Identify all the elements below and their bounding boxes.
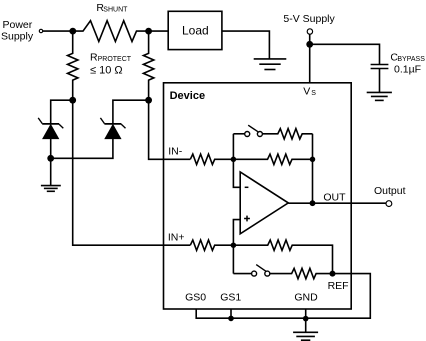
wire GND junction to ground [305, 318, 307, 332]
wire node C to zener D1 [51, 100, 73, 124]
node D right protect zener junction [145, 97, 152, 104]
svg-text:Device: Device [170, 90, 205, 102]
zener diode D1 [38, 118, 63, 139]
resistor RSHUNT [73, 21, 149, 42]
svg-text:BYPASS: BYPASS [397, 56, 425, 63]
svg-text:V: V [303, 85, 310, 97]
svg-text:Supply: Supply [1, 31, 34, 43]
node I non-inverting node [231, 242, 237, 248]
svg-text:5-V Supply: 5-V Supply [283, 13, 335, 25]
label RPROTECT [90, 51, 132, 63]
node F inverting node [231, 157, 237, 163]
terminal Power Supply [39, 29, 42, 32]
wire node B to load [149, 30, 169, 32]
load block [168, 11, 222, 49]
wire node F up to switch S1 [232, 134, 234, 160]
svg-text:GS0: GS0 [185, 291, 206, 303]
ground GND pin [293, 332, 318, 340]
node A shunt left junction [69, 28, 76, 35]
wire power supply terminal to node A [43, 30, 73, 32]
resistor R3 feedback [233, 154, 312, 164]
svg-text:IN+: IN+ [168, 232, 185, 244]
wire VS pin stub [309, 44, 311, 83]
wire node F to op-amp inverting input [233, 159, 240, 187]
wire node C to IN+ pin [73, 100, 191, 245]
wire zener D2 anode to node E [51, 139, 113, 159]
node H output node [310, 200, 316, 206]
wire node VS to capacitor CBYPASS [310, 44, 380, 64]
wire node D to zener D2 [113, 100, 149, 124]
node J REF node [330, 271, 336, 277]
node E zener anodes junction [47, 155, 54, 162]
resistor R2 gain set [262, 129, 312, 139]
switch S1 [233, 125, 262, 136]
wire zener D1 anode down [50, 139, 52, 159]
ground load [254, 59, 287, 70]
svg-text:SHUNT: SHUNT [103, 7, 128, 14]
resistor RPROTECT left [68, 31, 78, 100]
op-amp U2 [240, 172, 288, 234]
ground zeners [41, 186, 61, 192]
switch S2 [233, 245, 269, 276]
wire node H to Output terminal [313, 202, 387, 204]
wire load to ground [222, 31, 270, 59]
label CBYPASS [390, 51, 425, 63]
wire node I to op-amp non-inverting input [233, 220, 240, 246]
ground CBYPASS [367, 92, 392, 100]
svg-text:IN-: IN- [168, 146, 183, 158]
resistor RPROTECT right [143, 31, 153, 100]
terminal Output [386, 201, 392, 207]
pin label VS [303, 85, 316, 97]
node K GS1 junction [228, 309, 234, 321]
svg-text:≤ 10 Ω: ≤ 10 Ω [90, 65, 123, 77]
svg-text:S: S [311, 90, 316, 97]
device box U1 [164, 83, 352, 309]
node B shunt right junction [145, 28, 152, 35]
svg-text:GS1: GS1 [220, 291, 241, 303]
svg-text:OUT: OUT [323, 191, 346, 203]
wire capacitor to ground [379, 69, 381, 93]
resistor R6 switched to REF [270, 268, 333, 278]
wire node E to ground [50, 158, 52, 185]
svg-text:Load: Load [182, 24, 209, 38]
node L GND junction [303, 309, 309, 321]
label Power Supply [1, 19, 34, 43]
resistor R1 IN- input [190, 154, 233, 164]
svg-text:Power: Power [3, 19, 33, 31]
wire op-amp output to node H [288, 202, 312, 204]
wire REF to GND net [306, 274, 371, 319]
node VS junction [306, 41, 313, 48]
resistor R5 to REF [233, 240, 332, 274]
capacitor CBYPASS [371, 65, 389, 69]
label RSHUNT [96, 2, 128, 14]
wire GS0 stub and rail [196, 309, 306, 318]
resistor R4 IN+ input [190, 240, 233, 250]
terminal 5-V Supply [307, 29, 312, 34]
svg-text:Output: Output [374, 185, 406, 197]
svg-text:0.1µF: 0.1µF [394, 63, 421, 75]
node C left protect zener junction [69, 97, 76, 104]
wire R2 to output column [312, 134, 314, 203]
zener diode D2 [100, 118, 125, 139]
node G feedback junction [310, 157, 316, 163]
wire node D to IN- pin [149, 100, 191, 159]
svg-text:GND: GND [294, 291, 318, 303]
svg-text:PROTECT: PROTECT [98, 56, 132, 63]
wire 5-V terminal to node VS [309, 34, 311, 44]
svg-text:REF: REF [328, 280, 349, 292]
